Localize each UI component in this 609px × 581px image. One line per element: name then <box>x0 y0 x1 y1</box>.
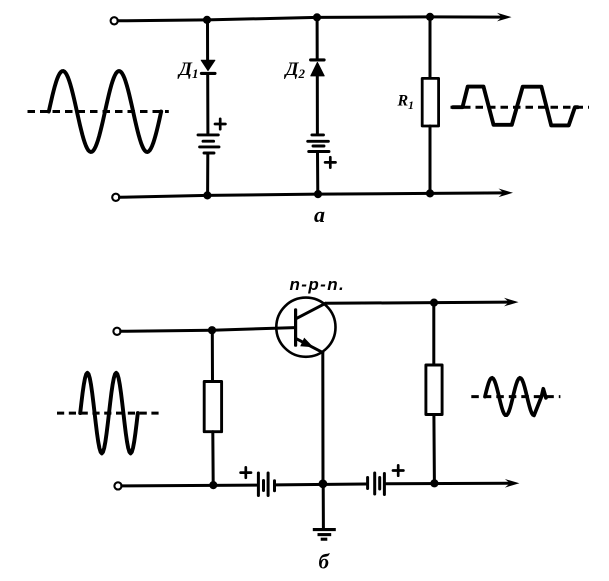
transistor VT1 emitter line <box>297 339 323 353</box>
svg-text:n-p-n.: n-p-n. <box>290 275 346 294</box>
wire: ground stem <box>322 484 325 529</box>
svg-text:R1: R1 <box>397 93 414 113</box>
input terminal a top <box>111 17 118 24</box>
plus label battery GB2 <box>325 157 335 167</box>
arrow: collector output b <box>504 298 519 307</box>
plus label battery GB3 <box>241 467 251 477</box>
node: junction base / divider resistor <box>208 326 216 334</box>
input waveform b: dashed zero line <box>57 412 159 415</box>
wire: bottom rail b left <box>122 484 257 488</box>
node: junction top rail / D2 <box>313 13 321 21</box>
wire: bottom rail b middle <box>277 483 367 487</box>
svg-text:а: а <box>314 202 325 227</box>
wire: battery GB1 to bottom rail <box>206 154 209 195</box>
battery GB3 (bias, vertical plates) <box>258 473 274 496</box>
wire: base resistor to bottom rail <box>211 432 214 485</box>
node: junction collector rail / load resistor <box>430 299 438 307</box>
wire: bottom rail b right <box>386 482 509 486</box>
output waveform a: dashed zero line <box>451 106 590 109</box>
node: junction bottom rail / emitter-ground <box>319 479 328 488</box>
wire: bottom rail circuit a <box>120 193 505 197</box>
battery GB4 (collector supply, vertical plates) <box>368 473 385 495</box>
arrow: bottom rail output a <box>499 189 514 198</box>
output waveform b: dashed zero line <box>471 395 560 398</box>
arrow: bottom rail output b <box>505 479 520 488</box>
wire: battery GB2 to bottom rail <box>316 153 319 195</box>
battery GB1 (two cells, + up) <box>198 135 219 153</box>
input terminal b bottom <box>114 482 121 489</box>
resistor R3 (load) <box>426 365 442 415</box>
wire: base resistor upper <box>211 330 214 381</box>
node: junction top rail / R1 <box>426 13 434 21</box>
transistor VT1 emitter arrow <box>300 338 313 348</box>
plus label battery GB1 <box>215 119 225 129</box>
resistor R2 (base) <box>204 382 221 432</box>
input waveform a: dashed zero line <box>28 110 169 113</box>
input terminal a bottom <box>112 194 119 201</box>
transistor VT1 base bar <box>294 310 297 345</box>
wire: load resistor upper <box>432 303 435 365</box>
transistor VT1 circle <box>276 298 335 357</box>
wire: top rail circuit a <box>118 17 503 21</box>
node: junction bottom rail / D2 <box>314 190 322 198</box>
output waveform b: reduced sine <box>485 378 546 416</box>
svg-text:б: б <box>319 550 331 574</box>
input waveform a: sine 2 cycles <box>49 71 161 152</box>
node: junction bottom rail / base resistor <box>209 481 217 489</box>
diode D2 (cathode top, anode bottom) <box>311 60 325 76</box>
node: junction bottom rail / R1 <box>426 189 434 197</box>
wire: load resistor to bottom rail <box>432 415 436 484</box>
node: junction top rail / D1 <box>203 16 211 24</box>
wire: R1 branch upper <box>429 17 432 79</box>
svg-text:Д2: Д2 <box>284 59 306 81</box>
wire: D1 branch upper <box>206 20 209 60</box>
diode D1 (anode top, cathode bottom) <box>201 60 215 73</box>
ground symbol <box>313 530 336 540</box>
arrow: top rail output a <box>497 13 512 22</box>
wire: emitter to ground junction <box>321 353 324 484</box>
input terminal b top <box>113 328 120 335</box>
wire: collector rail circuit b <box>326 302 509 303</box>
resistor R1 <box>422 78 438 126</box>
wire: D1 to battery <box>206 74 209 134</box>
input waveform b: sine 2 cycles <box>80 373 138 454</box>
battery GB2 (two cells, + down) <box>308 135 329 152</box>
node: junction bottom rail / D1 <box>203 191 211 199</box>
svg-text:Д1: Д1 <box>177 59 198 81</box>
wire: R1 to bottom rail <box>429 126 432 193</box>
transistor VT1 collector line <box>297 303 326 318</box>
node: junction bottom rail / load resistor <box>430 479 438 487</box>
wire: D2 to battery <box>316 76 319 134</box>
wire: base input circuit b <box>121 328 295 332</box>
output waveform a: clipped trapezoid wave <box>453 87 578 126</box>
wire: D2 branch upper <box>316 17 319 58</box>
plus label battery GB4 <box>393 465 403 475</box>
